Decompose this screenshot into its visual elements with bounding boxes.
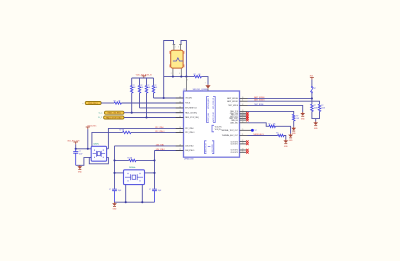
pin JTAG_SEL	[240, 122, 248, 124]
wire osc1 vdd	[76, 144, 92, 149]
oscillator X1 body	[91, 146, 106, 161]
node THERMAL test point	[251, 129, 254, 132]
wire row2 left	[101, 102, 114, 104]
resistor R4 leads	[131, 78, 133, 113]
wire row7 RTC_XTALO right	[131, 131, 184, 133]
svg-text:SSD201_QFN68: SSD201_QFN68	[193, 89, 209, 91]
no-connect JTAG_TMS	[246, 112, 249, 115]
wire THERMAL_ADC_OUT	[248, 135, 278, 137]
svg-text:CL_2: CL_2	[98, 117, 102, 119]
svg-text:18: 18	[242, 119, 244, 121]
svg-text:12pF: 12pF	[118, 190, 122, 192]
wire VDD33_RTC stem	[87, 129, 89, 149]
pin THERMAL_TEST_OUT	[240, 129, 252, 131]
svg-text:7: 7	[205, 83, 206, 85]
pin THERMAL_ADC_OUT	[240, 135, 248, 137]
svg-text:20: 20	[242, 129, 244, 131]
junction row4 pullup	[131, 112, 133, 114]
junction vdd cap	[75, 148, 77, 150]
svg-text:▸: ▸	[83, 102, 84, 105]
power port bar VDD_3V3_AON	[142, 76, 146, 78]
junction osc2 out	[153, 172, 155, 174]
svg-text:27: 27	[179, 149, 181, 151]
svg-text:24MHz: 24MHz	[129, 167, 136, 169]
svg-text:16: 16	[242, 115, 244, 117]
wire 3V3 to switch	[311, 80, 313, 87]
crystal Y1 pin leads	[173, 44, 181, 76]
svg-text:R?: R?	[114, 100, 116, 102]
svg-text:31: 31	[179, 131, 181, 133]
svg-text:CLKOUT0: CLKOUT0	[231, 141, 238, 143]
junction node OSC out	[185, 76, 187, 78]
power port bar 3V3	[310, 77, 314, 79]
resistor R14	[318, 104, 321, 111]
svg-text:PAD1_STOP_REQ: PAD1_STOP_REQ	[106, 117, 122, 120]
wire resistor join	[312, 112, 320, 122]
wire osc1 nc loop	[89, 158, 108, 164]
svg-text:21: 21	[242, 134, 244, 136]
svg-text:CLKOUT3: CLKOUT3	[231, 152, 238, 154]
no-connect CLKOUT0	[246, 140, 249, 143]
svg-text:R?: R?	[140, 85, 142, 87]
resistor R11	[269, 125, 275, 128]
switch S1	[310, 86, 313, 93]
wire row9 24M_XTALO	[155, 150, 184, 152]
resistor R4	[130, 86, 133, 93]
no-connect JTAG_EN	[246, 119, 249, 122]
U1 power bracket group1	[207, 97, 216, 123]
resistor R8	[123, 131, 131, 134]
ground GND tck	[291, 127, 296, 135]
svg-text:50: 50	[179, 111, 181, 113]
pin JTAG_TRST	[240, 117, 247, 119]
resistor R7	[152, 86, 155, 93]
op-amp U1 body	[184, 91, 240, 157]
svg-text:32kHz: 32kHz	[93, 144, 99, 146]
wire row7 left corner	[92, 132, 123, 146]
junction gnd rail b	[141, 201, 143, 203]
svg-text:TEST_MODE: TEST_MODE	[228, 105, 238, 107]
svg-text:VDD_PLL: VDD_PLL	[215, 129, 222, 131]
svg-text:R?: R?	[154, 85, 156, 87]
wire UART_MODE1	[248, 101, 320, 104]
svg-text:28: 28	[179, 144, 181, 146]
junction vdd stem	[87, 148, 89, 150]
no-connect JTAG_TDI	[246, 114, 249, 117]
svg-text:BTN_RESET_B: BTN_RESET_B	[185, 108, 196, 110]
resistor R5	[138, 86, 141, 93]
wire osc2 right vert	[154, 151, 156, 189]
ground GND sel	[288, 134, 293, 142]
svg-text:R?: R?	[276, 133, 278, 135]
junction row10 right	[153, 159, 155, 161]
wire R10 to gnd	[293, 121, 295, 127]
svg-text:2: 2	[171, 73, 172, 75]
oscillator X2 body	[124, 170, 145, 185]
svg-text:R?: R?	[321, 105, 323, 107]
svg-text:PD8_B: PD8_B	[185, 103, 190, 105]
svg-text:9: 9	[187, 79, 188, 81]
svg-text:R?: R?	[147, 85, 149, 87]
pin PAD1_STOP_REQ	[176, 117, 184, 119]
svg-text:52: 52	[179, 106, 181, 108]
ground GND 24M	[112, 202, 117, 210]
resistor R2	[114, 102, 121, 105]
wire osc2 out	[145, 172, 155, 174]
wire row1 OSC32K	[154, 97, 184, 99]
wire row2 right	[121, 102, 183, 104]
wire TEST_MODE	[248, 105, 303, 112]
pin top OSC	[185, 77, 187, 91]
wire osc1 gnd rail	[76, 158, 92, 166]
svg-text:TEST_MODE: TEST_MODE	[254, 104, 263, 106]
wire JTAG_SEL	[248, 123, 270, 127]
wire XTAL1 right loop	[181, 41, 186, 77]
svg-text:C?: C?	[79, 151, 81, 153]
U1 power bracket group2	[212, 125, 214, 132]
svg-text:VDD_CORE_09: VDD_CORE_09	[213, 98, 215, 109]
no-connect CLKOUT1	[246, 143, 249, 146]
svg-text:12: 12	[242, 104, 244, 106]
resistor R5 leads	[139, 78, 141, 108]
crystal Y1 pads	[169, 51, 184, 67]
wire osc2 gnd rail	[115, 201, 155, 203]
crystal Y1 body	[171, 50, 183, 68]
wire row10 feedback	[115, 159, 155, 161]
wire osc1 out	[107, 148, 109, 150]
wire switch to node	[311, 93, 313, 104]
wire row6 RTC_XTALI	[108, 128, 183, 148]
svg-text:S?: S?	[314, 88, 316, 90]
svg-text:30: 30	[179, 127, 181, 129]
pin 24M_XTALO	[176, 150, 184, 152]
crystal Y1 glyph	[173, 58, 183, 61]
oscillator X2 glyph	[125, 173, 143, 182]
svg-text:R?: R?	[194, 74, 196, 76]
junction row1 xtal	[163, 97, 165, 99]
wire row5	[124, 117, 184, 119]
svg-text:23: 23	[242, 142, 244, 144]
svg-text:VSS_CORE: VSS_CORE	[212, 144, 214, 152]
port PAD1_CM_REQ	[104, 111, 124, 115]
svg-text:V?: V?	[255, 130, 257, 132]
pin top AVSS	[207, 89, 209, 92]
wire after resistor R3	[201, 77, 208, 85]
junction row5 pullup	[145, 116, 147, 118]
svg-text:22: 22	[242, 140, 244, 142]
U1 power bracket group3	[205, 141, 214, 154]
svg-text:PAD1_CM_REQ: PAD1_CM_REQ	[108, 112, 122, 115]
pin PD8_B	[176, 102, 184, 104]
resistor R10	[292, 114, 295, 121]
wire R11 to gnd	[275, 126, 290, 133]
svg-text:19: 19	[242, 121, 244, 123]
pin JTAG_TMS	[240, 112, 247, 114]
pin 24M_XTALI	[176, 145, 184, 147]
svg-text:49: 49	[179, 116, 181, 118]
svg-text:10uF: 10uF	[79, 154, 83, 156]
pin JTAG_EN	[240, 119, 247, 121]
svg-text:OSC32KI: OSC32KI	[185, 98, 192, 100]
pin CLKOUT0	[240, 141, 247, 143]
wire XTAL1 left loop	[164, 41, 174, 99]
svg-text:25: 25	[242, 151, 244, 153]
ground GND test	[300, 112, 305, 120]
port PAD1_STOP_REQ	[104, 116, 124, 120]
svg-text:QFN68_8X8: QFN68_8X8	[184, 159, 193, 161]
no-connect JTAG_TDO	[246, 115, 249, 118]
svg-text:VDD_RTC: VDD_RTC	[215, 127, 223, 129]
pin PAD1_CM_REQ	[176, 112, 184, 114]
wire osc2 gnd stubs	[126, 185, 143, 203]
junction row10 left	[113, 159, 115, 161]
pin JTAG_TDO	[240, 116, 247, 118]
wire osc2 in	[115, 172, 124, 174]
resistor R6 leads	[146, 78, 148, 118]
svg-text:R? 1M: R? 1M	[119, 130, 124, 132]
svg-text:CLKOUT2: CLKOUT2	[231, 150, 238, 152]
resistor R12	[278, 134, 284, 137]
pin CLKOUT2	[240, 149, 247, 151]
svg-text:24: 24	[242, 149, 244, 151]
svg-text:14: 14	[242, 112, 244, 114]
svg-text:CLKOUT1: CLKOUT1	[231, 144, 238, 146]
capacitor C3	[152, 189, 157, 202]
svg-text:VDDP_1833: VDDP_1833	[208, 113, 210, 122]
capacitor C1	[73, 149, 78, 166]
svg-text:1: 1	[175, 46, 176, 48]
junction osc2 in	[113, 172, 115, 174]
pin JTAG_TDI	[240, 114, 247, 116]
pin OSC32KI	[176, 97, 184, 99]
wire osc2 left vert	[114, 146, 116, 189]
svg-text:C?: C?	[149, 189, 151, 191]
wire crystal gnd rail	[164, 76, 194, 78]
resistor R7 leads	[153, 78, 155, 98]
svg-text:R? 1M: R? 1M	[127, 158, 132, 160]
no-connect CLKOUT2	[246, 149, 249, 152]
svg-text:R?: R?	[296, 115, 298, 117]
svg-text:10: 10	[242, 97, 244, 99]
pin CLKOUT3	[240, 151, 247, 153]
port PD8_OSC	[85, 101, 101, 105]
pin RTC_XTALI	[176, 127, 184, 129]
pin BTN_RESET_B	[176, 107, 184, 109]
capacitor C2	[112, 189, 117, 202]
wire THERMAL_TEST_OUT	[250, 129, 252, 131]
svg-text:13: 13	[242, 110, 244, 112]
resistor R3	[194, 75, 201, 78]
ground GND adc	[283, 139, 288, 147]
junction gnd rail a	[125, 201, 127, 203]
resistor R6	[145, 86, 148, 93]
wire JTAG_TCK	[248, 111, 294, 114]
pin JTAG_TCK	[240, 110, 248, 112]
junction crystal pad4	[180, 76, 182, 78]
svg-text:15: 15	[242, 114, 244, 116]
wire row8 24M_XTALI	[115, 145, 184, 147]
svg-text:44: 44	[179, 102, 181, 104]
pin TEST_MODE	[240, 104, 248, 106]
junction switch node	[311, 97, 313, 99]
wire UART_MODE0	[248, 97, 312, 99]
no-connect CLKOUT3	[246, 151, 249, 154]
svg-text:17: 17	[242, 117, 244, 119]
pin UART_MODE0	[240, 97, 248, 99]
pin RTC_XTALO	[176, 131, 184, 133]
svg-text:CL_1: CL_1	[99, 112, 103, 114]
wire pull-up rail	[132, 77, 154, 79]
resistor R13	[311, 104, 314, 111]
svg-text:R?: R?	[314, 105, 316, 107]
resistor R9	[129, 159, 136, 162]
oscillator X1 glyph	[93, 150, 106, 158]
svg-text:PD8_OSC_I: PD8_OSC_I	[88, 103, 98, 105]
svg-text:R?: R?	[268, 124, 270, 126]
ground GND switch	[313, 121, 318, 129]
pin UART_MODE1	[240, 100, 248, 102]
wire R12 to gnd	[284, 136, 286, 140]
power arrow AVSS	[205, 85, 210, 89]
svg-text:11: 11	[242, 100, 244, 102]
power port bar VDD_RTC_3V3	[73, 142, 78, 144]
svg-text:12pF: 12pF	[158, 190, 162, 192]
svg-text:C?: C?	[109, 189, 111, 191]
svg-text:R?: R?	[133, 85, 135, 87]
wire row4	[124, 112, 184, 114]
power port bar VDD33_RTC	[86, 127, 90, 129]
ground GND rtc	[77, 165, 82, 173]
svg-text:45: 45	[179, 97, 181, 99]
junction crystal pad2	[172, 76, 174, 78]
pin CLKOUT1	[240, 143, 247, 145]
no-connect JTAG_TRST	[246, 117, 249, 120]
wire row3	[140, 107, 184, 109]
